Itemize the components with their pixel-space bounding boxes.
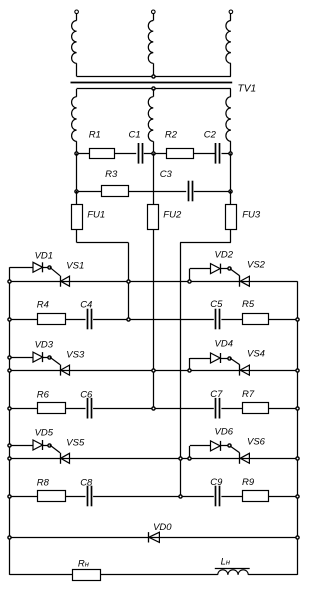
junction phase1 row VD1: [127, 280, 130, 283]
svg-text:C2: C2: [204, 129, 217, 140]
wire C6 to C7: [93, 408, 214, 410]
capacitor C9: [215, 486, 217, 507]
svg-text:VD4: VD4: [215, 339, 233, 350]
junction right bus rc row: [296, 407, 299, 410]
fuse FU2: [153, 204, 155, 229]
resistor R3: [102, 186, 129, 197]
wire R4 to C4: [65, 319, 86, 321]
resistor R5: [243, 314, 269, 325]
junction VD2 branch: [188, 280, 191, 283]
junction left bus row: [8, 280, 11, 283]
svg-text:Rн: Rн: [78, 559, 90, 570]
svg-text:C8: C8: [80, 477, 93, 488]
wire R5 to right bus: [269, 319, 298, 321]
svg-text:C3: C3: [160, 169, 173, 180]
wire primary neutral bus: [77, 76, 231, 78]
wire VD6 cathode: [220, 445, 230, 447]
svg-text:R9: R9: [242, 477, 255, 488]
diode VD2: [211, 264, 221, 274]
resistor R4: [38, 314, 66, 325]
svg-text:VS2: VS2: [247, 260, 266, 271]
inductor Lн: [218, 570, 249, 575]
wire row R8 left: [10, 496, 38, 498]
wire primary winding 1 bottom: [76, 63, 78, 76]
wire gate of VS5: [50, 445, 60, 453]
wire FU1 to phase1 drop: [76, 230, 78, 243]
svg-text:FU3: FU3: [242, 209, 261, 220]
junction left bus VD5 lead: [8, 444, 11, 447]
thyristor VS2: [239, 276, 241, 287]
wire R6 to C6: [65, 408, 86, 410]
junction right bus VD0: [296, 536, 299, 539]
thyristor VS3: [60, 365, 62, 376]
junction VD4 branch: [188, 369, 191, 372]
svg-text:R4: R4: [37, 300, 49, 311]
svg-text:Lн: Lн: [221, 557, 231, 568]
svg-text:C6: C6: [80, 390, 93, 401]
wire left bus: [9, 267, 11, 575]
junction node c row2: [229, 190, 232, 193]
junction phase1 end: [127, 318, 130, 321]
wire node a to FU1: [76, 191, 78, 204]
wire row to left bus: [10, 267, 33, 269]
wire FU3 to phase3 drop: [230, 229, 232, 242]
junction right bus rc row: [296, 318, 299, 321]
wire C5 to R5: [221, 319, 242, 321]
wire secondary winding 1 to node: [76, 141, 78, 153]
inductor Lн core: [215, 568, 250, 570]
wire R9 to right bus: [269, 496, 298, 498]
junction phase3 end: [179, 495, 182, 498]
wire row VS3 line: [10, 370, 298, 372]
wire C7 to R7: [221, 408, 242, 410]
wire phase3 vertical: [180, 243, 182, 497]
junction left bus VD0: [8, 536, 11, 539]
junction VD6 cathode: [228, 444, 231, 447]
wire C1 to node b: [144, 153, 154, 155]
capacitor C4: [87, 309, 89, 330]
wire load row left: [10, 574, 73, 576]
capacitor C5: [215, 309, 217, 330]
wire R1 to C1: [115, 153, 137, 155]
wire terminal b to primary winding: [153, 14, 155, 21]
svg-text:R7: R7: [242, 389, 255, 400]
junction VD6 branch: [188, 457, 191, 460]
junction phase2 end: [152, 407, 155, 410]
capacitor C6: [87, 398, 89, 419]
wire row R6 left: [10, 408, 38, 410]
resistor R2: [167, 149, 194, 159]
wire VD0 row: [10, 537, 298, 539]
diode VD5: [33, 440, 43, 450]
transformer TV1 primary winding 3: [226, 21, 231, 64]
junction left bus rc row: [8, 318, 11, 321]
svg-text:VD0: VD0: [153, 522, 172, 533]
terminal phase c: [229, 10, 233, 14]
wire secondary winding 2 to node: [153, 141, 155, 153]
wire gate of VS1: [50, 267, 60, 275]
diode VD1: [33, 262, 43, 272]
junction VD2 cathode: [228, 267, 231, 270]
transformer TV1 primary winding 1: [72, 21, 77, 64]
wire gate of VS6: [230, 446, 240, 453]
wire node a down to R3 row: [76, 153, 78, 191]
svg-text:R3: R3: [105, 169, 118, 180]
junction VD3 cathode: [48, 356, 51, 359]
thyristor VS1: [60, 276, 62, 287]
wire R2 to C2: [193, 153, 216, 155]
capacitor C3: [188, 181, 190, 202]
svg-text:R2: R2: [165, 129, 178, 140]
svg-text:VD5: VD5: [35, 428, 54, 439]
svg-text:R8: R8: [37, 477, 50, 488]
svg-text:VS1: VS1: [66, 261, 84, 272]
junction phase3 row VD5: [179, 457, 182, 460]
diode VD4: [211, 353, 221, 363]
wire VD6 branch: [189, 446, 191, 458]
wire node c to FU3: [230, 191, 232, 204]
junction left bus rc row: [8, 407, 11, 410]
wire primary winding 3 bottom: [230, 63, 232, 76]
resistor R1: [90, 149, 115, 159]
wire VD3 cathode: [43, 357, 50, 359]
wire right bus: [297, 281, 299, 575]
transformer TV1 secondary winding 1: [72, 97, 77, 142]
fuse FU1: [76, 204, 78, 229]
wire secondary bus to winding 1: [76, 89, 78, 97]
thyristor VS6: [239, 453, 241, 464]
wire terminal a to primary winding: [76, 14, 78, 21]
wire terminal c to primary winding: [230, 14, 232, 21]
thyristor VS5: [60, 453, 62, 464]
resistor R7: [243, 403, 269, 414]
junction VD1 cathode: [48, 266, 51, 269]
wire Rн to Lн: [100, 574, 217, 576]
wire R7 to right bus: [269, 408, 298, 410]
junction left bus rc row: [8, 495, 11, 498]
transformer TV1 primary winding 2: [148, 21, 153, 64]
terminal phase b: [152, 10, 156, 14]
wire phase1 vertical: [128, 243, 130, 320]
svg-text:C7: C7: [210, 389, 223, 400]
svg-text:C4: C4: [80, 300, 92, 311]
resistor R6: [38, 403, 66, 414]
wire VD4 cathode: [220, 358, 230, 360]
svg-text:VS6: VS6: [247, 437, 266, 448]
diode VD3: [33, 352, 43, 362]
svg-text:R5: R5: [242, 299, 255, 310]
wire secondary top bus: [77, 88, 231, 90]
transformer TV1 core: [71, 82, 233, 84]
junction node a row1: [75, 152, 78, 155]
fuse FU3: [230, 204, 232, 229]
diode VD0: [149, 532, 160, 542]
wire row to left bus: [10, 357, 33, 359]
wire VD5 cathode: [43, 445, 50, 447]
svg-text:VD6: VD6: [215, 427, 234, 438]
transformer TV1 secondary winding 3: [226, 97, 231, 142]
svg-text:VS3: VS3: [66, 350, 85, 361]
wire node b down through R3 row to FU2: [153, 153, 155, 204]
wire VD1 cathode: [43, 267, 50, 269]
junction node c row1: [229, 152, 232, 155]
junction right bus rc row: [296, 495, 299, 498]
wire VD2 branch: [189, 269, 191, 282]
svg-text:C9: C9: [210, 477, 223, 488]
wire node a to R3: [77, 191, 101, 193]
junction primary neutral: [152, 75, 155, 78]
wire gate of VS4: [230, 358, 240, 365]
terminal phase a: [75, 10, 79, 14]
svg-text:VS4: VS4: [247, 349, 265, 360]
wire C3 to node c: [194, 191, 231, 193]
wire row VS5 line: [10, 458, 298, 460]
resistor R8: [38, 491, 66, 502]
diode VD6: [211, 441, 221, 451]
wire C4 to C5: [93, 319, 214, 321]
junction VD5 cathode: [48, 444, 51, 447]
junction left bus row: [8, 369, 11, 372]
wire node a to R1: [77, 153, 90, 155]
capacitor C8: [87, 486, 89, 507]
svg-text:TV1: TV1: [238, 84, 257, 95]
wire secondary bus to winding 2: [153, 89, 155, 97]
junction VD4 cathode: [228, 357, 231, 360]
wire FU2 phase2 vertical: [153, 229, 155, 408]
wire gate of VS3: [50, 357, 60, 365]
transformer TV1 secondary winding 2: [148, 97, 153, 142]
svg-text:VD3: VD3: [35, 340, 54, 351]
wire R8 to C8: [65, 496, 86, 498]
junction phase2 row VD3: [152, 369, 155, 372]
wire C2 to node c: [222, 153, 231, 155]
wire C9 to R9: [221, 496, 242, 498]
svg-text:VD2: VD2: [215, 250, 234, 261]
resistor R9: [243, 491, 269, 502]
junction left bus row: [8, 457, 11, 460]
wire row VS1 line: [10, 281, 298, 283]
wire row R4 left: [10, 319, 38, 321]
svg-text:VD1: VD1: [35, 251, 53, 262]
svg-text:C5: C5: [210, 299, 223, 310]
svg-text:FU1: FU1: [87, 209, 105, 220]
wire node c down to R3 row: [230, 153, 232, 191]
svg-text:C1: C1: [129, 129, 141, 140]
wire secondary winding 3 to node: [230, 141, 232, 153]
capacitor C7: [215, 398, 217, 419]
junction secondary bus: [152, 87, 155, 90]
resistor Rн load: [73, 570, 101, 581]
junction right bus row VD5: [296, 457, 299, 460]
wire VD2 cathode: [220, 268, 230, 270]
svg-text:FU2: FU2: [163, 209, 182, 220]
capacitor C1: [138, 143, 140, 164]
wire secondary bus to winding 3: [230, 89, 232, 97]
wire row to left bus: [10, 445, 33, 447]
svg-text:R6: R6: [37, 390, 50, 401]
junction left bus VD3 lead: [8, 356, 11, 359]
capacitor C2: [215, 143, 217, 164]
svg-text:VS5: VS5: [66, 438, 85, 449]
wire C8 to C9: [93, 496, 214, 498]
wire node b to R2: [153, 153, 166, 155]
wire primary winding 2 bottom: [153, 63, 155, 76]
junction node a row2: [75, 190, 78, 193]
wire gate of VS2: [230, 269, 240, 276]
junction right bus row VD3: [296, 369, 299, 372]
wire Lн to right bus: [248, 574, 297, 576]
wire VD4 branch: [189, 358, 191, 370]
thyristor VS4: [239, 365, 241, 376]
wire R3 to C3: [129, 191, 187, 193]
junction node b row1: [152, 152, 155, 155]
svg-text:R1: R1: [89, 129, 101, 140]
